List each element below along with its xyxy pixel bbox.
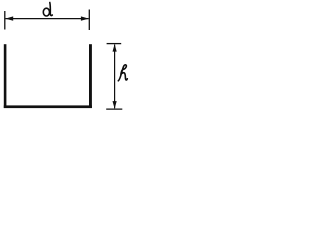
dimension d: right extension line xyxy=(88,10,90,31)
U-channel right wall xyxy=(89,44,92,108)
dimension d: left extension line xyxy=(4,11,6,30)
U-channel bottom xyxy=(4,105,92,108)
dimension h: top extension tick xyxy=(107,43,122,45)
dimension d: right arrowhead xyxy=(81,16,89,20)
dimension d: dimension line xyxy=(6,18,89,20)
dimension h: up arrowhead xyxy=(113,44,117,52)
label d xyxy=(43,3,52,17)
dimension d: left arrowhead xyxy=(5,16,13,20)
dimension h: bottom extension tick xyxy=(106,108,122,110)
dimension h: dimension line xyxy=(114,45,116,109)
label h xyxy=(118,65,127,81)
dimension h: down arrowhead xyxy=(113,101,117,109)
U-channel left wall xyxy=(4,44,7,108)
